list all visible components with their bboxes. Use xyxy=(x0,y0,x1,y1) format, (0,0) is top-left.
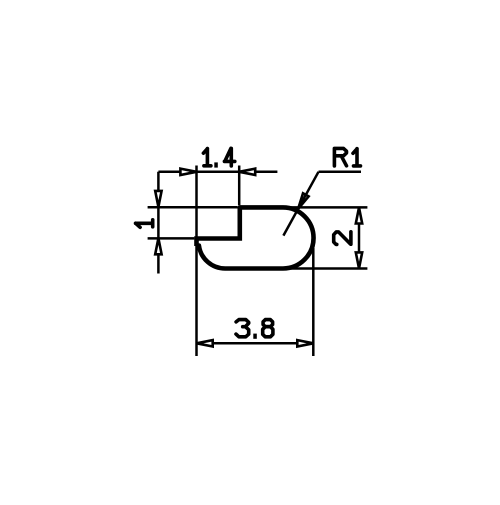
arrowhead R1 leader xyxy=(295,193,308,210)
arrowhead dim 1 top xyxy=(155,191,161,207)
thin lines xyxy=(148,166,368,357)
radius label R1 xyxy=(334,148,346,166)
arrowhead dim 3.8 left xyxy=(197,340,213,346)
dim 2 vertical xyxy=(358,223,361,253)
dimension text 1.4 xyxy=(203,149,211,166)
dim 1 vertical line segments xyxy=(157,172,160,274)
extension bottom level right xyxy=(285,267,367,270)
arrowhead dim 2 top xyxy=(356,208,362,224)
arrowhead dim 3.8 right xyxy=(297,340,313,346)
extension line 1.4 right xyxy=(238,166,241,206)
profile notch / left edge xyxy=(197,207,240,246)
extension top level xyxy=(148,206,368,209)
profile outline xyxy=(199,207,314,268)
arrowhead dim 1.4 right xyxy=(239,169,255,175)
arrowhead dim 2 bottom xyxy=(356,252,362,268)
R1 underline xyxy=(319,171,362,174)
dim 3.8 line xyxy=(212,342,298,345)
arrowhead dim 1 bottom xyxy=(155,238,161,254)
extension step level xyxy=(148,237,195,240)
extension 3.8 right xyxy=(312,248,315,356)
dim 1.4 line segments xyxy=(158,171,277,174)
extension line left (1.4 left + 3.8 left) xyxy=(195,166,198,357)
arrowhead dim 1.4 left xyxy=(180,169,196,175)
dimension text 2 (rotated) xyxy=(334,232,351,245)
dimension text 3.8 xyxy=(236,320,249,337)
R1 leader diagonal (over arrow) xyxy=(283,172,318,236)
dimension text 1 (rotated) xyxy=(136,220,153,228)
